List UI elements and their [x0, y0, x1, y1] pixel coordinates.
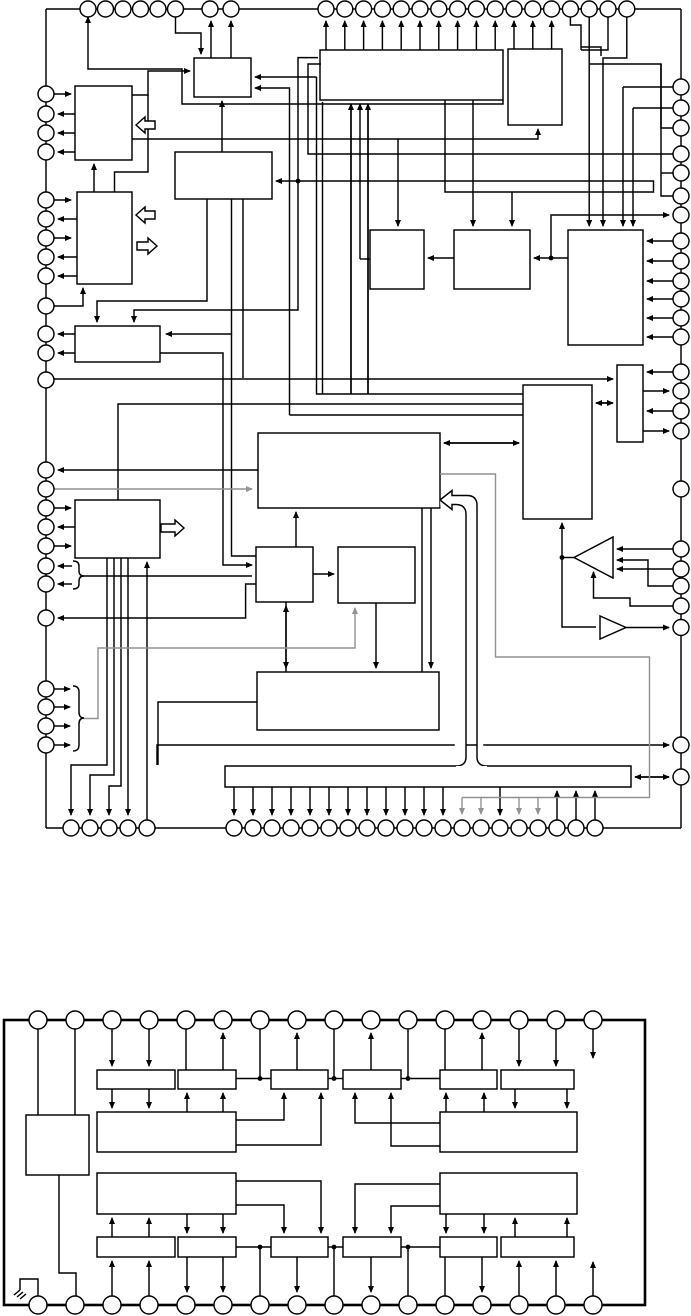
pin bottom bottom-diagram — [288, 1296, 306, 1314]
wire B3 to left-pin y257 — [58, 256, 77, 258]
wire bottom pin4 to C12 — [148, 1261, 150, 1296]
wire bottom-pin up into B11 — [146, 562, 148, 820]
pin left — [38, 192, 54, 208]
brace pins 566-584 — [73, 561, 84, 589]
wire BT to top-pin — [438, 21, 440, 50]
wire B14 to right-pin y391 — [643, 390, 669, 392]
block C13 — [178, 1237, 236, 1257]
wire C13 to bottom pin6 — [222, 1257, 224, 1292]
gray drop to bottom-pin — [480, 798, 482, 815]
gray wire B10 right loop — [440, 474, 650, 798]
pin bottom — [101, 820, 117, 836]
wire C17 to C11 a — [514, 1218, 516, 1237]
wire B11 to bottom-pin 71 — [71, 558, 107, 815]
wire left-pin into B11 y508 — [54, 507, 71, 509]
wire bar-pin bidir right — [635, 776, 669, 778]
pin right — [673, 541, 689, 557]
buffer triangle T2 — [600, 616, 626, 639]
wire bar to bottom-pin — [290, 787, 292, 815]
pin bottom — [120, 820, 136, 836]
wire pin12 to C7 — [444, 1029, 446, 1070]
wire left-pin into B11 y546 — [54, 545, 71, 547]
wire B2 to top-pin7 — [210, 21, 212, 58]
wire B10 to left-pin y470 — [58, 469, 258, 471]
wire bottom pin7 up — [259, 1247, 261, 1296]
pin top — [223, 1, 239, 17]
wire left-pin into B3 y238 — [54, 237, 71, 239]
pin bottom — [139, 820, 155, 836]
wire C9 to C7 b — [483, 1093, 485, 1112]
block B9 — [75, 326, 160, 362]
pin bottom — [226, 820, 242, 836]
pin top bottom-diagram — [29, 1011, 47, 1029]
pin bottom — [473, 820, 489, 836]
wire C4 to pin5 — [185, 1029, 187, 1070]
wire left-pin into brace2 y707 — [54, 706, 70, 708]
pin right — [673, 188, 689, 204]
wire branch to right-pin y215 — [551, 215, 669, 258]
pin left — [38, 610, 54, 626]
wire C13-C14 — [236, 1246, 271, 1248]
pin right — [673, 620, 689, 636]
pin left — [38, 211, 54, 227]
pin right — [673, 578, 689, 594]
wire top-pin6 to B2 — [176, 17, 202, 54]
wire C11 to C16 b — [483, 1214, 485, 1233]
pin right — [673, 146, 689, 162]
pin left — [38, 86, 54, 102]
hollow arrow icon left B3 — [136, 207, 155, 223]
pin bottom — [340, 820, 356, 836]
wire C10 to C14 a — [236, 1181, 321, 1233]
wire left boundary — [45, 9, 47, 828]
wire BT to top-pin — [381, 21, 383, 50]
pin bottom bottom-diagram — [473, 1296, 491, 1314]
wire BT to top-pin — [475, 21, 477, 50]
wire B5 to top-pin — [513, 21, 515, 49]
block B1 — [75, 86, 132, 160]
pin bottom — [492, 820, 508, 836]
pin top — [202, 1, 218, 17]
wire left-pin into brace2 y689 — [54, 688, 70, 690]
pin right — [673, 310, 689, 326]
wire bus to B2 right lower — [255, 88, 290, 415]
pin bottom — [302, 820, 318, 836]
pin right — [673, 79, 689, 95]
pin top bottom-diagram — [177, 1011, 195, 1029]
pin bottom — [549, 820, 565, 836]
pin top — [450, 1, 466, 17]
wire drop to B6 top c — [622, 87, 624, 226]
wire BT down to B8 top — [472, 100, 474, 226]
pin bottom — [82, 820, 98, 836]
pin bottom — [378, 820, 394, 836]
block B3 — [77, 192, 132, 284]
wire to right-pin y173 — [661, 172, 673, 174]
wire drop to B6 top d — [632, 108, 634, 226]
pin bottom bottom-diagram — [140, 1296, 158, 1314]
pin bottom — [264, 820, 280, 836]
wire dot branch to B9 top — [134, 181, 298, 322]
pin bottom bottom-diagram — [584, 1296, 602, 1314]
pin left — [38, 372, 54, 388]
junction dot B6-B8 — [549, 256, 554, 261]
pin top — [318, 1, 334, 17]
pin left — [38, 558, 54, 574]
wire bottom-pin up into bar — [556, 791, 558, 820]
pin top bottom-diagram — [325, 1011, 343, 1029]
wire bar to bottom-pin — [442, 787, 444, 815]
wire bus down to y394 line b — [367, 104, 369, 394]
wire C6 to pin10 — [370, 1033, 372, 1070]
wire B3 to left-pin y276 — [58, 275, 77, 277]
pin top — [374, 1, 390, 17]
pin bottom bottom-diagram — [436, 1296, 454, 1314]
wire BT to top-pin — [325, 21, 327, 50]
wire B12 to B13 — [313, 573, 334, 575]
wire C5 to pin8 — [296, 1033, 298, 1070]
wire C15-C16 — [401, 1246, 440, 1248]
wire right-pin into B6 y261 — [647, 260, 673, 262]
pin bottom bottom-diagram — [510, 1296, 528, 1314]
wire bottom pin9 up — [333, 1247, 335, 1296]
wire to right-pin y108 — [633, 107, 673, 109]
wire B5 to top-pin — [551, 21, 553, 49]
wire left-pin13 long line to B14 — [54, 378, 613, 380]
wire C12 to C10 — [111, 1218, 113, 1237]
block BT — [320, 50, 503, 100]
block C3 — [97, 1112, 236, 1152]
pin left — [38, 519, 54, 535]
wire B1 to left-pin y133 — [58, 132, 75, 134]
pin left — [38, 681, 54, 697]
pin bottom — [245, 820, 261, 836]
wire B12 to left-pin y618 — [58, 584, 256, 618]
pin left — [38, 462, 54, 478]
pin top — [544, 1, 560, 17]
pin bottom bottom-diagram — [547, 1296, 565, 1314]
wire bus arrow up into BT bottom — [367, 104, 369, 394]
block B10 — [258, 433, 440, 508]
pin left — [38, 106, 54, 122]
pin right — [673, 561, 689, 577]
wire right-pin into B6 y318 — [647, 317, 673, 319]
fat bus arrow into B10 — [440, 491, 487, 767]
wire B7-left riser arrow into BT bottom — [359, 104, 361, 259]
wire bar to bottom-pin — [328, 787, 330, 815]
wire C15 to bottom pin10 — [370, 1257, 372, 1292]
wire B8 to B7 — [428, 257, 454, 259]
wire B11 top to B15 — [118, 404, 523, 500]
wire pin14 to C8 — [518, 1029, 520, 1066]
gray drop to bottom-pin — [518, 798, 520, 815]
wire BT to top-pin — [494, 21, 496, 50]
wire to right-pin y196 — [661, 64, 673, 196]
wire pin9 down — [333, 1029, 335, 1079]
wire bar to bottom-pin — [385, 787, 387, 815]
pin right — [673, 100, 689, 116]
wire B13 to B16 — [375, 603, 377, 668]
wire BT to B4 right — [276, 100, 654, 192]
pin top bottom-diagram — [362, 1011, 380, 1029]
wire bus arrow up into BT bottom — [350, 104, 352, 394]
block C17 — [501, 1237, 574, 1257]
block B4 — [175, 152, 272, 199]
wire bar to bottom-pin — [271, 787, 273, 815]
wire B3 to left-pin y219 — [58, 218, 77, 220]
pin bottom — [397, 820, 413, 836]
wire dot up into B15 bottom — [561, 523, 563, 558]
wire pin7 down — [259, 1029, 261, 1079]
wire right boundary — [680, 9, 682, 828]
pin right — [673, 481, 689, 497]
wire riser corner into B7 left — [360, 258, 370, 260]
pin left — [38, 298, 54, 314]
wire right-pin into tri1 y569 — [617, 568, 673, 570]
bus bar — [225, 766, 631, 787]
block B13 — [338, 547, 415, 603]
block C11 — [440, 1173, 577, 1214]
pin top — [468, 1, 484, 17]
wire C8 to C9 b — [566, 1089, 568, 1108]
pin top — [356, 1, 372, 17]
wire bottom pin14 to C17 — [518, 1261, 520, 1296]
wire bottom-pin up into bar — [575, 791, 577, 820]
block B12 — [256, 547, 313, 602]
pin left — [38, 718, 54, 734]
pin bottom — [587, 820, 603, 836]
wire bar to bottom-pin — [499, 787, 501, 815]
wire tee to right-pin y128 — [589, 64, 673, 128]
wire pin1 to C1 — [37, 1029, 39, 1115]
block C12 — [97, 1237, 175, 1257]
wire right-pin into tri1 y549 — [617, 548, 673, 550]
pin right — [673, 383, 689, 399]
hollow arrow icon right B11 — [161, 520, 184, 536]
pin top bottom-diagram — [288, 1011, 306, 1029]
pin bottom — [530, 820, 546, 836]
wire left-pin into brace2 y726 — [54, 725, 70, 727]
hollow arrow icon right B3 — [137, 238, 157, 254]
block B7 — [370, 230, 424, 289]
pin bottom — [321, 820, 337, 836]
wire left-pin into brace2 y745 — [54, 744, 70, 746]
pin left — [38, 576, 54, 592]
block C14 — [271, 1237, 328, 1257]
wire B12 top to B10 bottom — [295, 512, 297, 547]
block B15 — [523, 385, 592, 519]
pin right — [673, 423, 689, 439]
pin right — [673, 291, 689, 307]
pin right — [673, 233, 689, 249]
block C1 — [26, 1115, 89, 1175]
pin top bottom-diagram — [399, 1011, 417, 1029]
wire B9 to B12 — [160, 353, 252, 565]
gray drop to bottom-pin — [537, 798, 539, 815]
wire left-pin up into B3 bottom — [54, 288, 83, 306]
block C10 — [97, 1173, 236, 1214]
pin right — [673, 273, 689, 289]
wire B2 to top-pin8 — [230, 21, 232, 58]
pin right — [673, 403, 689, 419]
wire bus down to y394 line b — [350, 104, 352, 394]
wire bar to bottom-pin — [366, 787, 368, 815]
junction dot — [406, 1245, 411, 1250]
wire C10 to C14 b — [236, 1205, 284, 1233]
wire C3 to C4 b — [222, 1093, 224, 1112]
pin bottom — [416, 820, 432, 836]
wire C4 to pin6 — [222, 1033, 224, 1070]
pin right — [673, 737, 689, 753]
block B11 — [75, 500, 160, 558]
wire C10 to C13 — [186, 1214, 188, 1233]
pin top — [581, 1, 597, 17]
wire B11 to left-pin y527 — [58, 526, 75, 528]
pin right — [673, 120, 689, 136]
wire bar to bottom-pin — [404, 787, 406, 815]
wire to right-pin y87 — [623, 86, 673, 88]
pin top — [431, 1, 447, 17]
wire B10 to B16 plain — [421, 508, 423, 672]
pin left — [38, 481, 54, 497]
pin bottom — [454, 820, 470, 836]
wire bar to bottom-pin — [347, 787, 349, 815]
wire B11 to bottom-pin 128 — [127, 558, 129, 815]
pin top — [600, 1, 616, 17]
pin top — [393, 1, 409, 17]
wire right-pin into B6 y281 — [647, 280, 673, 282]
wire pin16 stub down — [592, 1029, 594, 1058]
pin bottom — [63, 820, 79, 836]
wire B11 to bottom-pin 109 — [109, 558, 121, 815]
wire C11 to C15 b — [391, 1206, 440, 1233]
wire B10-B15 bidir — [444, 442, 519, 444]
wire tri1 apex to dot — [562, 557, 574, 559]
pin top bottom-diagram — [214, 1011, 232, 1029]
pin top — [562, 1, 578, 17]
wire C10 to C13 b — [222, 1214, 224, 1233]
pin bottom bottom-diagram — [29, 1296, 47, 1314]
wire right-pin into B6 y241 — [647, 240, 673, 242]
junction dot — [332, 1245, 337, 1250]
pin bottom bottom-diagram — [66, 1296, 84, 1314]
pin top — [506, 1, 522, 17]
wire top-pin570 jog down — [570, 17, 581, 50]
pin bottom bottom-diagram — [214, 1296, 232, 1314]
pin top bottom-diagram — [510, 1011, 528, 1029]
wire pin15 to C8 — [555, 1029, 557, 1066]
wire C12 to C10 b — [148, 1218, 150, 1237]
wire BT to top-pin — [400, 21, 402, 50]
junction dot — [258, 1076, 263, 1081]
wire bar to bottom-pin — [233, 787, 235, 815]
wire C9 to C7 a — [445, 1093, 447, 1112]
wire branch down to B8 top — [511, 192, 513, 226]
pin right — [673, 207, 689, 223]
pin bottom bottom-diagram — [251, 1296, 269, 1314]
pin top — [150, 1, 166, 17]
wire right-pin into B6 y337 — [647, 336, 673, 338]
gray drop to bottom-pin — [461, 798, 463, 815]
block C15 — [343, 1237, 401, 1257]
gray wire left-pin15 to B10 — [54, 488, 252, 490]
wire C16 to bottom pin13 — [481, 1257, 483, 1292]
brace pins 689-745 — [73, 686, 84, 751]
junction dot — [332, 1076, 337, 1081]
wire C3 to C5 b — [236, 1093, 321, 1145]
pin right — [673, 598, 689, 614]
pin top bottom-diagram — [140, 1011, 158, 1029]
bottom diagram border — [4, 1020, 645, 1305]
pin left — [38, 144, 54, 160]
wire pin2 to C1 — [74, 1029, 76, 1115]
wire B14 to right-pin y431 — [643, 430, 669, 432]
wire B1 to left-pin y152 — [58, 151, 75, 153]
wire B12-B16 bidir — [285, 602, 287, 668]
wire bottom-pin up into bar — [594, 791, 596, 820]
wire top-pin to B6 top b — [603, 17, 627, 226]
pin bottom — [435, 820, 451, 836]
wire B4 to B9 top — [97, 199, 207, 322]
wire C14 to bottom pin8 — [296, 1257, 298, 1292]
wire bus vertical to dot — [298, 58, 318, 181]
wire pin3 to C2 — [111, 1029, 113, 1066]
wire bottom pin15 to C17 — [555, 1261, 557, 1296]
wire right-pin into tri1 y586 — [617, 560, 673, 586]
wire C9 to C6 a — [355, 1093, 440, 1123]
wire bar to bottom-pin — [309, 787, 311, 815]
wire BT to top-pin — [363, 21, 365, 50]
pin top — [412, 1, 428, 17]
block C9 — [440, 1112, 577, 1152]
junction dot — [406, 1076, 411, 1081]
wire bottom pin3 to C12 — [111, 1261, 113, 1296]
wire arrow into top-pin1 — [87, 17, 89, 21]
wire right-pin into tri1 bottom — [594, 572, 674, 606]
wire buffer2 to right-pin y627 — [626, 627, 669, 629]
block C7 — [440, 1070, 497, 1089]
pin left — [38, 326, 54, 342]
pin left — [38, 125, 54, 141]
pin bottom — [283, 820, 299, 836]
pin top — [133, 1, 149, 17]
pin bottom bottom-diagram — [399, 1296, 417, 1314]
pin right — [673, 364, 689, 380]
wire top-pin1 to BT — [88, 17, 503, 104]
pin top — [80, 1, 96, 17]
wire B3 to B1 bottom — [93, 164, 95, 192]
wire B4 down to long line — [242, 199, 244, 378]
pin left — [38, 737, 54, 753]
pin top bottom-diagram — [547, 1011, 565, 1029]
pin left — [38, 538, 54, 554]
wire top boundary — [46, 8, 681, 10]
pin right — [673, 165, 689, 181]
block C2 — [97, 1070, 175, 1089]
block B6 — [568, 230, 643, 345]
wire C17 to C11 b — [566, 1218, 568, 1237]
buffer triangle T1 — [574, 537, 613, 578]
pin top — [168, 1, 184, 17]
wire B10 to B16 arrow — [430, 508, 432, 668]
wire B9 to left-pin y334 — [58, 333, 75, 335]
wire pin4 to C2 — [148, 1029, 150, 1066]
pin right — [673, 329, 689, 345]
junction dot — [258, 1245, 263, 1250]
gray wire brace2 to B13 bottom — [83, 608, 355, 719]
wire bottom pin11 up — [407, 1247, 409, 1296]
block B2 — [194, 58, 251, 97]
